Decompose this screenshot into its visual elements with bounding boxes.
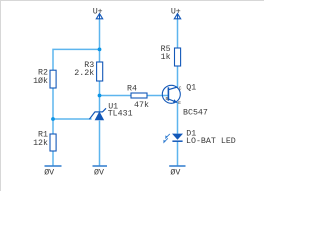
svg-text:ØV: ØV: [94, 168, 104, 178]
svg-text:Q1: Q1: [186, 83, 196, 92]
svg-text:R4: R4: [127, 84, 137, 93]
svg-text:B: B: [166, 96, 169, 102]
svg-text:BC547: BC547: [183, 108, 208, 117]
svg-text:12k: 12k: [33, 138, 48, 148]
svg-text:ØV: ØV: [170, 168, 180, 178]
svg-text:U+: U+: [93, 7, 103, 16]
svg-text:E: E: [178, 100, 181, 106]
svg-text:LO-BAT LED: LO-BAT LED: [186, 137, 236, 146]
svg-text:2.2k: 2.2k: [74, 68, 94, 78]
svg-text:ØV: ØV: [44, 168, 54, 178]
svg-text:U+: U+: [171, 7, 181, 16]
svg-text:1Øk: 1Øk: [33, 76, 48, 86]
svg-text:47k: 47k: [134, 100, 149, 110]
svg-text:TL431: TL431: [108, 109, 133, 118]
svg-text:C: C: [179, 85, 182, 91]
svg-text:1k: 1k: [161, 52, 171, 62]
